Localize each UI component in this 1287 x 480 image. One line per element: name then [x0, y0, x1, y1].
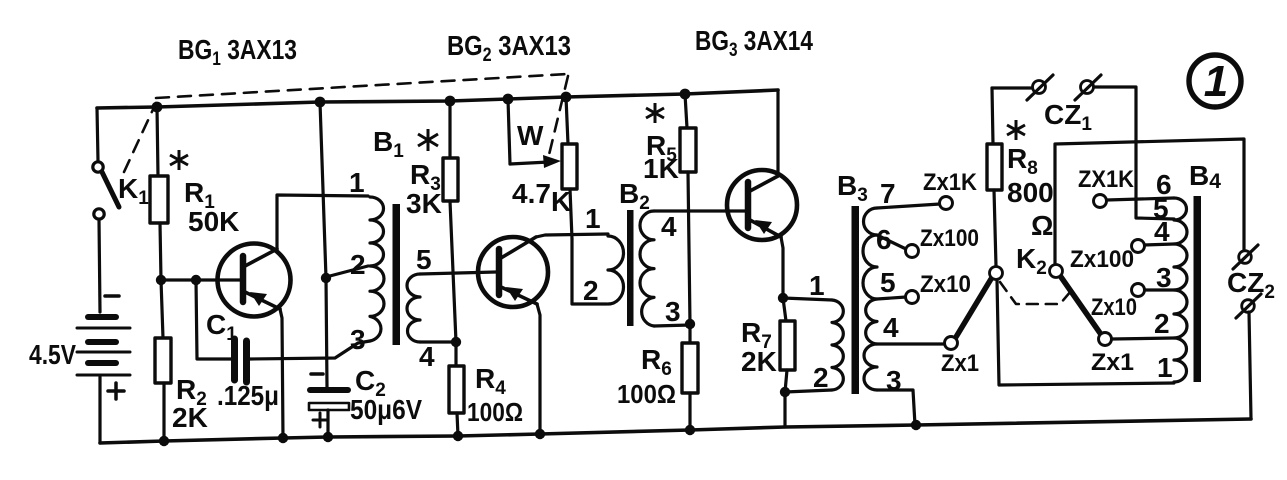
svg-text:100Ω: 100Ω — [617, 379, 676, 409]
svg-text:2K: 2K — [741, 346, 777, 377]
asterisk R5 — [646, 103, 664, 123]
terminal Zx1K left — [940, 197, 953, 210]
wire B4 tap 3 to Zx10 terminal — [1144, 288, 1174, 291]
node B1 tap2 junction — [321, 273, 331, 283]
svg-text:.125μ: .125μ — [217, 380, 279, 411]
svg-text:1: 1 — [809, 270, 825, 301]
battery minus sign — [105, 294, 119, 298]
svg-text:Zx100: Zx100 — [920, 225, 979, 252]
wire tap2 junction to C2 — [326, 278, 327, 387]
switch K2 right pole — [1050, 265, 1101, 334]
transformer B2 left winding — [608, 236, 624, 304]
svg-text:C1: C1 — [206, 309, 237, 345]
terminal Zx10 right — [1132, 284, 1145, 297]
wire B1 tap 2 to winding — [326, 266, 368, 277]
svg-text:Zx100: Zx100 — [1070, 246, 1134, 273]
transformer B3 left winding — [832, 300, 843, 390]
node R4 ground junction — [453, 431, 463, 441]
svg-text:R4: R4 — [475, 363, 506, 399]
svg-text:800: 800 — [1007, 177, 1054, 208]
transistor BG1 — [218, 244, 291, 317]
marker circled figure 1 — [1189, 55, 1241, 107]
terminal CZ1 right plug — [1075, 75, 1101, 100]
svg-text:4: 4 — [419, 341, 435, 372]
node R6 ground junction — [685, 425, 695, 435]
node R5 R6 tap3 junction — [685, 319, 695, 329]
switch K1 — [93, 162, 119, 219]
wire W bottom to B2 tap 2 — [572, 239, 607, 304]
transformer B3 right winding — [863, 208, 877, 390]
wire C1 to B1 tap 3 — [250, 341, 370, 359]
resistor R7 — [780, 298, 795, 392]
svg-text:2: 2 — [350, 249, 366, 280]
wire B4 tap 6 to ZX1K terminal — [1107, 198, 1174, 200]
svg-text:R6: R6 — [641, 344, 672, 380]
svg-text:5: 5 — [880, 267, 896, 298]
capacitor C2 — [309, 390, 349, 410]
terminal CZ2 bottom plug — [1236, 294, 1261, 318]
terminal Zx10 left — [906, 291, 919, 304]
asterisk R1 — [170, 150, 188, 170]
wire CZ2 bottom to ground rail — [1249, 312, 1251, 419]
svg-text:100Ω: 100Ω — [467, 397, 523, 427]
resistor R4 — [449, 342, 464, 436]
wire B3 tap 2 to R7 bottom junction — [785, 390, 832, 392]
svg-text:ZX1K: ZX1K — [1078, 166, 1135, 193]
svg-text:50K: 50K — [188, 206, 239, 237]
resistor R6 — [682, 324, 698, 430]
svg-text:K2: K2 — [1016, 243, 1047, 279]
node B3 ground junction — [911, 420, 921, 430]
wire BG2 emitter to ground — [537, 304, 540, 434]
wire rail to B1 tap 2 — [320, 102, 326, 278]
svg-text:B1: B1 — [373, 126, 404, 162]
svg-text:3: 3 — [665, 296, 681, 327]
wire K2 left pole to B4 bottom tap 1 — [997, 280, 1174, 385]
terminal Zx100 right — [1132, 240, 1145, 253]
wire B4 tap 2 to Zx1 terminal — [1112, 338, 1174, 339]
wire B3 tap 5 to Zx10 terminal — [877, 297, 906, 299]
node rail junction above B1 — [315, 97, 326, 108]
wire CZ1 right to B4 tap 5 — [1094, 87, 1174, 219]
resistor R8 — [987, 88, 1002, 266]
transformer B1 left winding — [370, 197, 384, 341]
svg-text:Zx1K: Zx1K — [923, 169, 978, 196]
wire B3 tap 6 to Zx100 terminal — [877, 235, 906, 249]
svg-text:1: 1 — [1157, 352, 1173, 383]
svg-text:BG3 3AX14: BG3 3AX14 — [695, 25, 813, 61]
wire K2 right pole to CZ2 — [1055, 139, 1244, 264]
svg-text:2: 2 — [1154, 308, 1170, 339]
svg-text:1: 1 — [585, 203, 601, 234]
C2 plus sign — [313, 413, 327, 427]
terminal CZ1 left plug — [1027, 75, 1053, 100]
resistor R5 — [680, 94, 696, 324]
svg-text:B4: B4 — [1189, 160, 1221, 193]
svg-text:2: 2 — [813, 362, 829, 393]
wire BG1 collector to B1 tap 1 — [277, 195, 368, 249]
wire emitter junction to B3 tap 1 — [783, 298, 832, 300]
svg-text:Zx1: Zx1 — [941, 350, 979, 377]
svg-text:1: 1 — [349, 167, 365, 198]
wire C2 to ground rail — [326, 410, 329, 437]
svg-text:BG1 3AX13: BG1 3AX13 — [178, 34, 297, 70]
wire B3 tap 7 to Zx1K terminal — [877, 204, 940, 208]
svg-text:2: 2 — [583, 275, 599, 306]
wire switch to battery — [99, 219, 100, 312]
asterisk R8 — [1007, 120, 1025, 140]
svg-text:7: 7 — [880, 178, 896, 209]
node rail junction R3 — [445, 96, 456, 107]
transformer B4 winding — [1174, 198, 1187, 382]
svg-text:K1: K1 — [118, 173, 149, 209]
wire B4 tap 4 to Zx100 terminal — [1144, 244, 1174, 245]
wire battery to ground rail — [98, 377, 101, 443]
node BG3 emitter junction — [778, 293, 788, 303]
node C1 branch junction — [191, 275, 201, 285]
wire B3 tap 4 to Zx1 terminal — [877, 342, 944, 345]
svg-text:CZ2: CZ2 — [1227, 267, 1275, 303]
wire BG1 emitter to ground — [280, 309, 283, 438]
potentiometer W 4.7K — [562, 97, 577, 239]
terminal Zx1 right — [1099, 333, 1112, 346]
transformer B1 right winding — [407, 274, 420, 342]
node C2 ground junction — [323, 432, 333, 442]
dashed link K2 poles — [1000, 282, 1071, 304]
svg-text:6: 6 — [876, 224, 892, 255]
asterisk B1 — [418, 129, 438, 151]
svg-text:R8: R8 — [1007, 143, 1038, 179]
wire R7 bottom junction to ground — [783, 392, 786, 427]
switch K2 left pole — [956, 267, 1003, 338]
wire top supply rail — [97, 90, 778, 108]
transformer B2 right winding — [640, 211, 654, 326]
resistor R1 — [150, 107, 168, 280]
node rail junction R5 — [680, 89, 691, 100]
svg-text:Zx10: Zx10 — [1091, 294, 1137, 321]
svg-text:3K: 3K — [406, 188, 442, 219]
wire B2 tap 4 to BG3 base — [654, 209, 745, 212]
potentiometer W wiper arrow — [510, 155, 561, 168]
wire left branch rail to switch — [97, 108, 98, 161]
svg-text:W: W — [517, 120, 544, 151]
transistor BG3 — [727, 170, 797, 240]
wire BG2 collector to B2 tap 1 — [536, 234, 608, 237]
battery plus sign — [108, 383, 124, 399]
node BG2 emitter ground junction — [535, 429, 545, 439]
svg-text:1: 1 — [1204, 57, 1228, 106]
svg-text:Zx10: Zx10 — [920, 271, 971, 298]
transformer B2 core — [627, 210, 634, 326]
wire B1 tap 4 to R3 R4 junction — [420, 340, 456, 343]
svg-text:B3: B3 — [837, 170, 868, 206]
transformer B4 core — [1194, 196, 1202, 382]
svg-text:4: 4 — [883, 312, 899, 343]
terminal ZX1K right — [1094, 195, 1107, 208]
dashed link K1 to W — [124, 74, 568, 172]
svg-text:3: 3 — [1156, 262, 1172, 293]
C2 minus sign — [311, 372, 323, 376]
svg-text:Zx1: Zx1 — [1091, 349, 1134, 376]
svg-text:4: 4 — [1154, 216, 1170, 247]
wire rail to W wiper — [508, 99, 510, 164]
resistor R2 — [155, 280, 171, 441]
node R3 R4 tap4 junction — [451, 337, 461, 347]
node base junction A — [156, 275, 166, 285]
wire B2 tap 3 to R5 R6 junction — [654, 325, 690, 326]
terminal CZ2 top plug — [1233, 245, 1258, 269]
svg-text:Ω: Ω — [1031, 210, 1053, 241]
node R2 ground junction — [159, 436, 169, 446]
wire BG3 collector to rail — [776, 90, 779, 176]
resistor R3 — [443, 101, 458, 342]
svg-text:CZ1: CZ1 — [1044, 99, 1092, 135]
wire base of BG1 — [161, 278, 240, 281]
battery 4.5V — [77, 317, 130, 375]
svg-text:2K: 2K — [172, 402, 208, 433]
wire BG3 emitter to R7 junction — [781, 237, 783, 298]
node BG1 emitter ground junction — [278, 433, 288, 443]
wire B1 tap 5 to BG2 base — [420, 272, 496, 274]
node rail junction R1 — [152, 102, 163, 113]
wire bottom ground rail — [100, 419, 1251, 443]
transformer B1 core — [393, 204, 401, 345]
svg-text:4.5V: 4.5V — [29, 339, 76, 370]
terminal Zx100 left — [906, 245, 919, 258]
node R7 bottom junction — [780, 387, 790, 397]
wire R8 top to CZ1 left terminal — [992, 86, 1032, 89]
svg-text:4: 4 — [661, 211, 677, 242]
capacitor C1 — [235, 339, 247, 382]
svg-text:3: 3 — [886, 365, 902, 396]
svg-text:BG2 3AX13: BG2 3AX13 — [447, 30, 571, 66]
node rail junction W top — [561, 92, 572, 103]
svg-text:50μ6V: 50μ6V — [350, 394, 422, 425]
node rail junction wiper — [503, 94, 514, 105]
svg-text:3: 3 — [350, 324, 366, 355]
terminal Zx1 left — [945, 337, 958, 350]
transformer B3 core — [852, 206, 860, 394]
svg-text:1K: 1K — [643, 153, 679, 184]
transistor BG2 — [478, 237, 548, 307]
wire C1 branch down — [196, 280, 231, 359]
wire B3 tap 3 to ground rail — [877, 390, 915, 425]
svg-text:5: 5 — [416, 244, 432, 275]
